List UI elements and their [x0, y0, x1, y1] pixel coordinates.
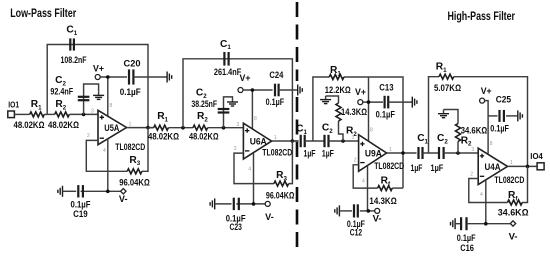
- ground (R2 stage4): [438, 110, 449, 118]
- node V+ junction (stage2): [251, 88, 255, 92]
- wire C1 feedback rail: [47, 45, 148, 128]
- svg-text:0.1µF: 0.1µF: [120, 87, 141, 97]
- wire V+ to C13 and pin 8 (stage3): [363, 77, 383, 141]
- svg-text:5.07KΩ: 5.07KΩ: [434, 83, 461, 93]
- svg-text:14.3KΩ: 14.3KΩ: [369, 196, 396, 206]
- pin 3 label (U9A): [352, 135, 355, 141]
- svg-text:3: 3: [237, 122, 240, 128]
- terminal V+ (U9A): [355, 87, 366, 105]
- svg-text:1: 1: [274, 135, 277, 141]
- capacitor C2 92.4nF: [50, 75, 89, 100]
- ground (C2): [93, 92, 104, 100]
- svg-text:C24: C24: [269, 70, 284, 80]
- pin 8 label (U6A): [254, 116, 257, 122]
- pin 2 label (U9A): [354, 158, 357, 164]
- ground (C19): [58, 186, 63, 197]
- pin 8 label (U4A): [490, 141, 493, 147]
- ground (C24): [298, 85, 303, 96]
- svg-text:8: 8: [110, 103, 113, 109]
- terminal IO1: [8, 101, 20, 118]
- pin 3 label (U4A): [472, 147, 475, 153]
- pin 2 label (U4A): [470, 171, 473, 177]
- node V- junction (U4A): [484, 222, 488, 226]
- wire C2 to U4A input: [444, 152, 479, 154]
- svg-text:0.1µF: 0.1µF: [490, 123, 509, 133]
- svg-text:TL082CD: TL082CD: [115, 142, 145, 152]
- svg-text:V-: V-: [509, 231, 518, 241]
- wire C2 to U9A input: [329, 140, 359, 142]
- svg-text:38.25nF: 38.25nF: [191, 99, 217, 109]
- ground (C23): [210, 198, 215, 209]
- wire C13 to ground: [388, 101, 412, 103]
- svg-text:3: 3: [472, 147, 475, 153]
- capacitor C19 0.1uF: [71, 185, 91, 219]
- title High-Pass Filter: [448, 9, 516, 23]
- svg-text:V-: V-: [373, 214, 382, 224]
- wire U6A output: [272, 140, 299, 142]
- node C2 tap (stage2): [222, 126, 226, 130]
- wire U9A feedback loop: [353, 165, 403, 188]
- pin 1 label (U6A): [274, 135, 277, 141]
- wire U9A output: [387, 152, 417, 154]
- node C2-R2 junction (U4A): [456, 151, 460, 155]
- svg-text:1: 1: [129, 121, 132, 127]
- svg-text:1µF: 1µF: [322, 148, 334, 158]
- ground (C2 stage2): [227, 101, 238, 106]
- svg-text:U4A: U4A: [485, 162, 501, 172]
- svg-text:V-: V-: [119, 194, 128, 204]
- pin 4 label: [103, 148, 106, 154]
- terminal IO4: [530, 152, 544, 170]
- wire C2 branch: [84, 84, 99, 114]
- capacitor C12 0.1uF: [347, 204, 365, 237]
- wire U5A output: [127, 127, 154, 129]
- wire U5A output to R1 stage2: [148, 127, 154, 129]
- pin 1 label (U9A): [389, 147, 392, 153]
- svg-text:48.02KΩ: 48.02KΩ: [189, 132, 219, 142]
- resistor R1 48.02K (stage2): [148, 111, 179, 142]
- wire V- rail (stage3): [339, 210, 374, 212]
- svg-text:2: 2: [234, 146, 237, 152]
- svg-text:2: 2: [87, 133, 90, 139]
- svg-text:C25: C25: [496, 94, 511, 104]
- svg-text:34.6KΩ: 34.6KΩ: [461, 126, 488, 136]
- svg-text:TL082CD: TL082CD: [494, 175, 524, 185]
- node V+ junction (stage3): [367, 100, 371, 104]
- svg-text:4: 4: [248, 166, 251, 172]
- pin 8 label (U9A): [370, 128, 373, 134]
- svg-text:2: 2: [354, 158, 357, 164]
- wire C20 to ground: [133, 76, 166, 78]
- svg-text:4: 4: [103, 148, 106, 154]
- svg-text:4: 4: [362, 178, 365, 184]
- svg-text:8: 8: [254, 116, 257, 122]
- wire U9A pin4 to V- rail: [367, 166, 369, 211]
- svg-text:8: 8: [490, 141, 493, 147]
- pin 2 label: [87, 133, 90, 139]
- resistor Rf 34.6K (stage4): [498, 190, 529, 217]
- svg-text:0.1µF: 0.1µF: [457, 233, 476, 243]
- svg-text:U5A: U5A: [104, 123, 119, 133]
- pin 1 label: [129, 121, 132, 127]
- svg-text:High-Pass Filter: High-Pass Filter: [448, 9, 516, 23]
- op-amp U4A TL082CD: [478, 148, 524, 185]
- capacitor C1 108.2nF: [61, 25, 87, 66]
- node U6A output junction: [291, 139, 295, 143]
- wire U4A feedback loop: [469, 166, 528, 202]
- capacitor C1 261.4nF: [214, 39, 242, 77]
- pin 1 label (U4A): [510, 160, 513, 166]
- wire R1 to R2 (stage2): [168, 127, 193, 129]
- svg-text:1: 1: [510, 160, 513, 166]
- resistor R2 34.6K (stage4): [456, 124, 488, 148]
- svg-text:4: 4: [480, 192, 483, 198]
- wire U4A output to IO4: [508, 165, 538, 167]
- title Low-Pass Filter: [10, 6, 76, 20]
- svg-text:96.04KΩ: 96.04KΩ: [119, 177, 150, 187]
- svg-text:2: 2: [470, 171, 473, 177]
- svg-text:1µF: 1µF: [411, 163, 423, 173]
- wire R1 feedback rail (stage4): [429, 77, 528, 167]
- wire U5A feedback loop: [86, 128, 148, 172]
- wire C2 branch (stage2): [224, 97, 233, 128]
- svg-text:92.4nF: 92.4nF: [50, 87, 73, 97]
- svg-text:Low-Pass Filter: Low-Pass Filter: [10, 6, 76, 20]
- capacitor C2 38.25nF: [191, 88, 229, 113]
- terminal V+ (U4A): [480, 86, 492, 103]
- svg-text:V+: V+: [481, 86, 492, 96]
- capacitor C2 1uF (HPF in): [322, 122, 334, 158]
- capacitor C1 1uF (stage4): [411, 133, 429, 173]
- svg-text:14.3KΩ: 14.3KΩ: [341, 107, 367, 117]
- svg-text:U9A: U9A: [365, 149, 382, 159]
- wire R2 to U5A noninverting input: [69, 113, 98, 115]
- resistor R2 48.02K (stage2): [189, 111, 219, 142]
- svg-text:C13: C13: [379, 83, 393, 93]
- node U5A output junction: [146, 126, 150, 130]
- svg-text:1µF: 1µF: [304, 148, 316, 158]
- op-amp U5A TL082CD: [98, 110, 146, 152]
- resistor R1 5.07K (stage4): [434, 62, 461, 94]
- wire V+ to C24 and pin 8 (stage2): [243, 90, 273, 129]
- wire R1 feedback rail (stage3): [313, 77, 403, 188]
- wire V+ jog to C25 line and pin 8: [485, 101, 489, 154]
- op-amp U6A TL082CD: [243, 123, 292, 159]
- terminal V- (U6A): [265, 201, 274, 222]
- wire stage2 output to C1 HPF: [292, 140, 298, 142]
- resistor R2 14.3K (stage3): [336, 103, 367, 138]
- svg-text:48.02KΩ: 48.02KΩ: [148, 132, 179, 142]
- pin 3 label (U6A): [237, 122, 240, 128]
- pin 4 label (U6A): [248, 166, 251, 172]
- capacitor C13 0.1uF: [376, 83, 396, 120]
- svg-text:U6A: U6A: [250, 137, 267, 147]
- svg-text:8: 8: [370, 128, 373, 134]
- svg-text:1: 1: [389, 147, 392, 153]
- resistor Rf 14.3K (stage3): [369, 175, 396, 206]
- capacitor C25 0.1uF: [490, 94, 511, 133]
- dashed divider between filters: [296, 2, 299, 254]
- wire C25 line: [488, 115, 517, 117]
- capacitor C2 1uF (stage4): [431, 133, 449, 173]
- node V- junction (U9A): [367, 209, 371, 213]
- node C2-R2 junction (U9A): [341, 139, 345, 143]
- node U9A output junction: [401, 151, 405, 155]
- svg-text:V-: V-: [265, 212, 274, 222]
- resistor R1 48.02K: [14, 99, 45, 130]
- ground (C20): [167, 72, 172, 83]
- svg-text:48.02KΩ: 48.02KΩ: [14, 120, 45, 130]
- terminal V- (U9A): [373, 208, 382, 223]
- svg-text:C20: C20: [124, 58, 141, 68]
- capacitor C1 1uF (HPF in): [296, 124, 316, 159]
- wire U6A feedback loop: [234, 141, 292, 184]
- svg-text:C23: C23: [230, 222, 242, 232]
- node V- junction (U5A): [106, 190, 110, 194]
- wire IO1 to R1: [14, 113, 29, 115]
- svg-text:3: 3: [352, 135, 355, 141]
- wire U6A pin4 to V- rail: [253, 154, 255, 204]
- terminal V+ (U5A): [93, 63, 104, 79]
- wire C1 to C2 (HPF): [305, 140, 325, 142]
- wire R1 to R2 (node to C1): [44, 113, 54, 115]
- svg-text:34.6KΩ: 34.6KΩ: [498, 207, 529, 217]
- svg-text:108.2nF: 108.2nF: [61, 55, 87, 65]
- wire C1 feedback rail (stage2): [183, 59, 292, 141]
- svg-text:48.02KΩ: 48.02KΩ: [48, 120, 79, 130]
- wire C1 to C2 (stage4): [423, 152, 440, 154]
- svg-text:96.04KΩ: 96.04KΩ: [266, 191, 294, 201]
- wire U4A pin4 to V- rail: [485, 181, 487, 224]
- ground (C12): [335, 205, 340, 216]
- capacitor C16 0.1uF: [457, 217, 476, 253]
- pin 8 label: [110, 103, 113, 109]
- terminal V- (U4A): [509, 221, 518, 242]
- ground (R2 stage3): [320, 96, 331, 104]
- wire R2 branch (stage3): [326, 96, 343, 141]
- wire V- rail: [63, 190, 124, 192]
- node C1 riser junction (stage2): [181, 126, 185, 130]
- svg-text:V+: V+: [355, 87, 366, 97]
- ground (C13): [412, 97, 417, 108]
- svg-text:261.4nF: 261.4nF: [214, 67, 242, 77]
- terminal V+ (U6A): [238, 73, 251, 93]
- wire R2 branch (stage4): [444, 110, 459, 154]
- svg-text:IO1: IO1: [8, 101, 19, 110]
- svg-text:12.2KΩ: 12.2KΩ: [325, 85, 351, 95]
- svg-text:1µF: 1µF: [431, 163, 444, 173]
- capacitor C23 0.1uF: [226, 198, 246, 232]
- pin 3 label: [91, 109, 94, 115]
- op-amp U9A TL082CD: [359, 135, 405, 172]
- wire R2 to U6A input: [208, 127, 244, 129]
- wire V- rail (stage4): [455, 223, 513, 225]
- svg-text:0.1µF: 0.1µF: [376, 109, 396, 119]
- svg-text:C19: C19: [73, 209, 88, 219]
- node U4A output junction: [526, 165, 530, 169]
- wire U5A pin4 to V- rail: [107, 139, 109, 192]
- svg-text:TL082CD: TL082CD: [262, 148, 292, 158]
- svg-text:V+: V+: [240, 73, 251, 83]
- wire V+ to C20 and pin 8: [100, 77, 127, 116]
- svg-text:V+: V+: [93, 63, 104, 73]
- svg-text:0.1µF: 0.1µF: [266, 97, 285, 107]
- resistor R2 48.02K: [48, 99, 79, 130]
- pin 2 label (U6A): [234, 146, 237, 152]
- ground (C16): [451, 218, 456, 229]
- svg-text:C16: C16: [460, 243, 474, 253]
- wire V- rail (stage2): [215, 203, 265, 205]
- svg-text:TL082CD: TL082CD: [374, 161, 404, 171]
- resistor R3 96.04K (stage2): [266, 170, 294, 201]
- capacitor C20 0.1uF: [120, 58, 141, 97]
- pin 4 label (U4A): [480, 192, 483, 198]
- pin 4 label (U9A): [362, 178, 365, 184]
- node A junction (C2 tap): [82, 113, 86, 117]
- ground (C25): [518, 110, 523, 121]
- terminal V- (U5A): [119, 189, 128, 205]
- node V- junction (U6A): [252, 202, 256, 206]
- node V+ junction: [106, 75, 110, 79]
- resistor R3 96.04K: [119, 155, 150, 188]
- resistor R1 12.2K (stage3): [325, 65, 351, 95]
- capacitor C24 0.1uF: [266, 70, 285, 107]
- svg-text:C12: C12: [350, 228, 362, 238]
- wire C24 to ground: [279, 89, 298, 91]
- svg-text:IO4: IO4: [530, 152, 543, 161]
- svg-text:3: 3: [91, 109, 94, 115]
